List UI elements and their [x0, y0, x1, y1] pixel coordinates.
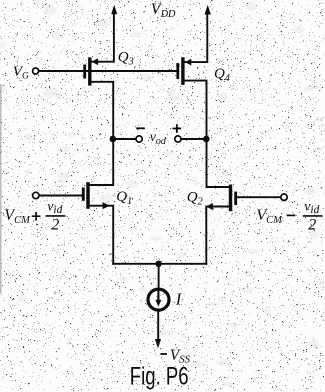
label -VSS: [160, 347, 190, 366]
label VCM - vid/2 at Q2 input: [256, 199, 322, 233]
wire: tail node down to current source: [158, 264, 160, 289]
wire: Q2 gate lead: [237, 196, 281, 198]
arrowhead: VDD right supply: [205, 5, 211, 15]
transistor Q3 (PMOS): gate bar, channel bar, source arrow: [85, 57, 98, 85]
transistor Q2 (NMOS): gate bar, channel bar, source arrow: [206, 185, 236, 212]
scan edge artifact left: [0, 84, 2, 294]
svg-text:Fig. P6: Fig. P6: [130, 363, 189, 391]
arrowhead: -VSS lead: [155, 339, 161, 348]
wire: Q4 drain down through output node to Q2 drain: [185, 81, 229, 187]
svg-text:2: 2: [308, 217, 316, 234]
transistor Q1 (NMOS): gate bar, channel bar, source arrow: [83, 182, 109, 209]
node: tail junction: [155, 261, 161, 267]
wire: current source down to -VSS arrow: [157, 311, 159, 338]
terminal: VG input: [33, 68, 39, 74]
transistor Q4 (PMOS): gate bar, channel bar, source arrow: [178, 57, 192, 85]
terminal: Q1 gate input: [33, 192, 39, 198]
terminal: vod minus: [136, 136, 142, 142]
label VCM + vid/2 at Q1 input: [4, 199, 65, 233]
wire: vod left tap: [113, 138, 136, 140]
svg-text:2: 2: [51, 217, 59, 234]
wire: Q1 gate lead: [39, 195, 82, 197]
wire: vod right tap: [181, 138, 206, 140]
wire: Q2 source down to tail node: [206, 207, 229, 264]
node: output right junction: [203, 136, 210, 143]
terminal: vod plus: [175, 136, 181, 142]
label vod minus sign: [136, 127, 145, 129]
terminal: Q2 gate input: [281, 194, 287, 200]
node: output left junction: [110, 136, 117, 143]
label vod plus sign: [173, 124, 182, 133]
wire: common gate line from VG to Q3 and Q4 gates: [39, 70, 178, 72]
wire: tail rail: [113, 263, 206, 265]
current source I: circle with downward arrow: [148, 289, 169, 310]
wire: Q1 source down to tail node: [90, 206, 114, 264]
wire: Q3 drain down through output node to Q1 drain: [90, 82, 114, 185]
wire: VDD right supply lead to Q4 source: [185, 12, 208, 63]
wire: VDD left supply lead to Q3 source: [91, 12, 114, 62]
arrowhead: VDD left supply: [111, 5, 117, 15]
